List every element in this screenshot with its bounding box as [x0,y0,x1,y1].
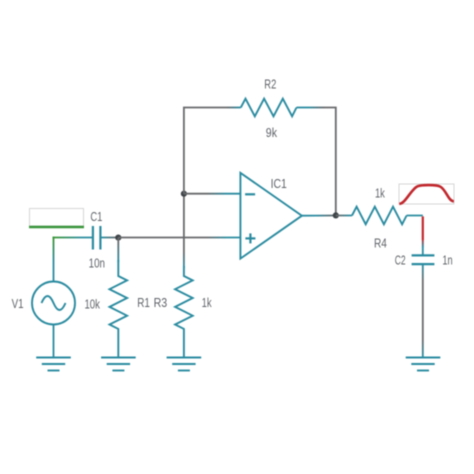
wire C2 to ground [422,265,424,357]
wire R2 right to output node [310,108,336,216]
wire feedback left vertical + top [184,108,241,195]
scope display (input probe, flat green trace) [29,209,84,228]
svg-text:1k: 1k [375,187,385,201]
svg-text:R2: R2 [264,78,276,92]
scope display (output probe, red trace) [399,184,454,204]
wire node B to op-amp - input [184,193,241,195]
svg-text:1k: 1k [202,296,213,310]
ground (R1) [101,358,136,371]
voltage source V1 [32,282,75,358]
svg-text:9k: 9k [266,126,278,140]
ground (C2) [406,358,441,371]
wire V1 to C1 (green fading to teal) [53,237,93,282]
svg-text:1n: 1n [442,254,452,268]
resistor R1 [110,260,128,357]
svg-text:R4: R4 [374,237,387,251]
capacitor C2 [412,255,435,264]
wire node C to R4 [336,215,352,217]
svg-text:R3: R3 [154,296,168,310]
wire feedback node to R3 [183,194,185,268]
node B (feedback / inverting input junction) [181,191,187,197]
node A (C1 / R1 / op-amp+ junction) [115,235,121,241]
wire R4 to C2 (red probe segment) [422,216,424,255]
svg-text:10k: 10k [84,298,100,312]
resistor R4 [352,207,423,225]
ground (V1) [36,358,71,371]
ground (R3) [167,358,202,371]
svg-text:10n: 10n [89,257,105,271]
svg-text:C1: C1 [90,210,102,224]
svg-text:C2: C2 [395,254,406,268]
wire node A down to R1 [117,238,119,262]
op-amp IC1 [240,173,302,259]
wire op-amp output to node C [302,215,336,217]
wire node A to op-amp + input [118,237,240,239]
node C (output junction) [333,212,339,218]
svg-text:V1: V1 [12,297,24,311]
resistor R2 [241,99,310,117]
svg-text:IC1: IC1 [271,177,287,191]
capacitor C1 [93,226,118,250]
resistor R3 [175,266,193,357]
svg-text:R1: R1 [137,296,150,310]
